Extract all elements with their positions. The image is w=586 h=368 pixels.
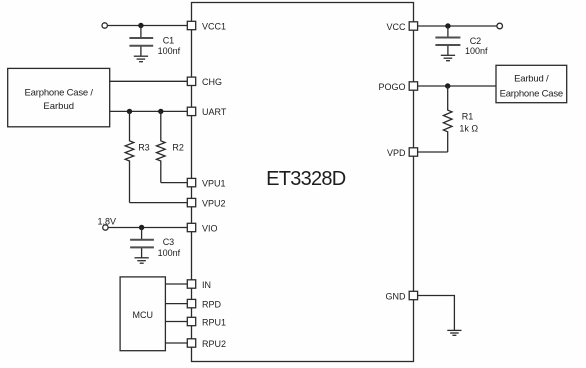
svg-text:100nf: 100nf bbox=[158, 248, 181, 258]
IC U1 ET3328D body bbox=[192, 3, 414, 362]
pin VIO bbox=[187, 223, 217, 233]
wire VCC to terminal bbox=[418, 25, 497, 27]
pin RPD bbox=[187, 299, 221, 309]
svg-text:CHG: CHG bbox=[202, 77, 222, 87]
svg-text:C3: C3 bbox=[163, 237, 175, 247]
svg-text:Earbud: Earbud bbox=[43, 101, 74, 112]
capacitor C3 bbox=[130, 228, 154, 258]
svg-text:100nf: 100nf bbox=[465, 46, 488, 56]
junction dot R1/POGO bbox=[445, 83, 450, 88]
svg-text:R3: R3 bbox=[138, 142, 150, 152]
svg-text:100nf: 100nf bbox=[158, 46, 181, 56]
block Earphone Case / Earbud bbox=[8, 68, 110, 126]
junction dot C3/VIO bbox=[139, 225, 144, 230]
pin CHG bbox=[187, 77, 222, 87]
junction dot R3/UART bbox=[127, 109, 132, 114]
wire VPD (from R1) bbox=[418, 151, 448, 153]
wire UART bbox=[110, 110, 188, 112]
ground symbol at GND bbox=[447, 330, 461, 335]
svg-text:VPD: VPD bbox=[387, 148, 406, 158]
pin RPU2 bbox=[187, 339, 226, 349]
svg-text:RPU1: RPU1 bbox=[202, 317, 226, 327]
junction dot C1/VCC1 bbox=[138, 23, 143, 28]
svg-text:IN: IN bbox=[202, 280, 211, 290]
svg-text:MCU: MCU bbox=[133, 310, 154, 320]
svg-text:RPD: RPD bbox=[202, 299, 222, 309]
svg-text:RPU2: RPU2 bbox=[202, 339, 226, 349]
svg-text:VPU2: VPU2 bbox=[202, 198, 226, 208]
wire VCC1 from supply terminal bbox=[107, 25, 187, 27]
wire RPU2 bbox=[165, 342, 187, 344]
svg-text:VCC: VCC bbox=[386, 22, 406, 32]
svg-text:C1: C1 bbox=[163, 35, 175, 45]
ground symbol under C1 bbox=[134, 56, 148, 62]
svg-text:GND: GND bbox=[386, 291, 407, 301]
block Earbud / Earphone Case bbox=[496, 65, 567, 102]
resistor R3 bbox=[125, 111, 134, 202]
wire VIO bbox=[108, 227, 187, 229]
svg-text:Earbud /: Earbud / bbox=[514, 73, 549, 84]
pin VCC1 bbox=[187, 21, 226, 31]
wire RPU1 bbox=[165, 321, 187, 323]
pin VCC bbox=[386, 22, 417, 32]
wire VPU1 (from R2) bbox=[161, 182, 188, 184]
pin POGO bbox=[378, 82, 417, 92]
svg-text:POGO: POGO bbox=[378, 82, 405, 92]
junction dot R2/UART bbox=[158, 109, 163, 114]
svg-text:UART: UART bbox=[202, 107, 227, 117]
svg-text:Earphone Case /: Earphone Case / bbox=[25, 87, 94, 98]
svg-text:Earphone Case: Earphone Case bbox=[500, 89, 563, 100]
pin VPD bbox=[387, 148, 418, 158]
pin IN bbox=[187, 280, 211, 290]
wire VPU2 (from R3) bbox=[130, 202, 188, 204]
terminal circle 1.8V supply bbox=[103, 225, 108, 230]
ground symbol under C3 bbox=[135, 258, 149, 263]
wire RPD bbox=[165, 303, 187, 305]
capacitor C2 bbox=[435, 26, 460, 55]
pin UART bbox=[187, 107, 227, 117]
svg-text:VCC1: VCC1 bbox=[202, 21, 226, 31]
pin RPU1 bbox=[187, 317, 226, 327]
block MCU bbox=[120, 277, 165, 351]
terminal circle VCC1 supply bbox=[102, 23, 107, 28]
svg-text:1k Ω: 1k Ω bbox=[459, 124, 478, 134]
resistor R2 bbox=[157, 111, 166, 182]
ground symbol under C2 bbox=[441, 55, 455, 60]
wire POGO bbox=[418, 85, 496, 87]
svg-text:R2: R2 bbox=[172, 142, 184, 152]
resistor R1 bbox=[443, 86, 452, 152]
svg-text:VIO: VIO bbox=[202, 223, 218, 233]
wire CHG bbox=[110, 80, 188, 82]
junction dot C2/VCC bbox=[445, 23, 450, 28]
pin VPU1 bbox=[187, 178, 225, 188]
wire IN bbox=[165, 283, 187, 285]
pin GND bbox=[386, 291, 418, 301]
terminal circle VCC bbox=[497, 23, 503, 29]
svg-text:C2: C2 bbox=[470, 36, 482, 46]
svg-text:ET3328D: ET3328D bbox=[266, 168, 346, 190]
wire GND bbox=[418, 296, 455, 331]
svg-text:VPU1: VPU1 bbox=[202, 178, 226, 188]
pin VPU2 bbox=[187, 198, 225, 208]
svg-text:R1: R1 bbox=[462, 111, 474, 121]
capacitor C1 bbox=[129, 26, 153, 57]
